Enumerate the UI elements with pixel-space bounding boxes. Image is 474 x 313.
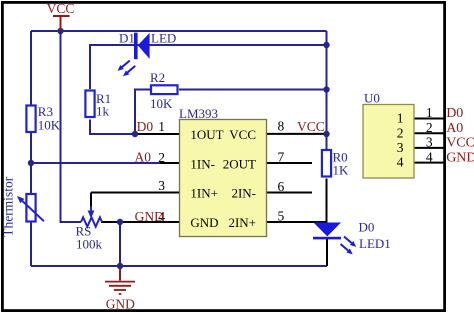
svg-text:VCC: VCC [47, 1, 75, 16]
svg-text:3: 3 [397, 140, 404, 155]
svg-text:R2: R2 [150, 70, 165, 85]
svg-text:VCC: VCC [446, 136, 474, 151]
svg-text:2OUT: 2OUT [223, 156, 256, 171]
svg-text:4: 4 [426, 149, 433, 164]
svg-text:2IN+: 2IN+ [228, 215, 256, 230]
svg-text:GND: GND [446, 150, 474, 165]
svg-text:2: 2 [158, 150, 165, 165]
svg-text:1: 1 [426, 105, 433, 120]
svg-text:1: 1 [158, 119, 165, 134]
svg-text:A0: A0 [135, 149, 152, 164]
svg-text:1k: 1k [96, 104, 110, 119]
svg-text:LED: LED [151, 31, 176, 46]
svg-text:D0: D0 [359, 220, 375, 235]
svg-text:4: 4 [397, 155, 404, 170]
svg-text:10K: 10K [150, 96, 173, 111]
svg-text:VCC: VCC [297, 119, 325, 134]
svg-text:GND: GND [190, 215, 218, 230]
svg-text:U0: U0 [364, 91, 380, 106]
svg-text:2: 2 [397, 125, 404, 140]
svg-text:LM393: LM393 [179, 106, 218, 121]
svg-text:100k: 100k [76, 236, 103, 251]
svg-text:5: 5 [278, 208, 285, 223]
svg-text:1OUT: 1OUT [190, 127, 223, 142]
svg-text:VCC: VCC [229, 127, 256, 142]
svg-text:10K: 10K [38, 118, 61, 133]
svg-text:LED1: LED1 [359, 236, 391, 251]
svg-text:1IN-: 1IN- [190, 156, 215, 171]
svg-text:3: 3 [426, 135, 433, 150]
svg-text:2: 2 [426, 120, 433, 135]
svg-text:1: 1 [397, 111, 404, 126]
svg-text:Thermistor: Thermistor [1, 176, 16, 236]
svg-text:6: 6 [278, 179, 285, 194]
svg-text:A0: A0 [446, 121, 463, 136]
svg-text:3: 3 [158, 178, 165, 193]
svg-text:D0: D0 [137, 119, 154, 134]
svg-text:GND: GND [135, 209, 164, 224]
svg-text:GND: GND [106, 296, 135, 311]
svg-text:7: 7 [278, 149, 285, 164]
svg-text:D0: D0 [446, 106, 463, 121]
svg-text:8: 8 [278, 118, 285, 133]
svg-text:2IN-: 2IN- [231, 186, 256, 201]
svg-text:1K: 1K [333, 163, 350, 178]
svg-text:D1: D1 [119, 31, 135, 46]
svg-text:1IN+: 1IN+ [190, 186, 218, 201]
